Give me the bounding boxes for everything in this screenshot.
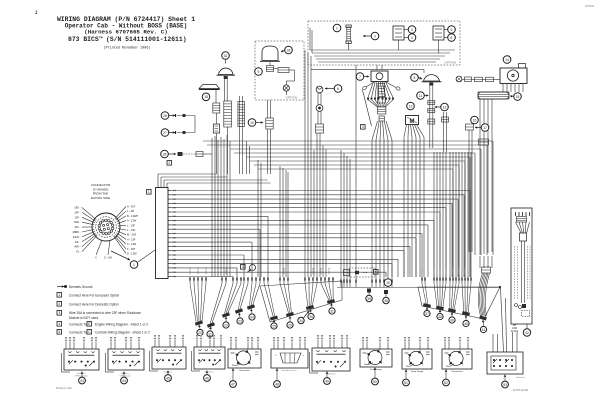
svg-text:A - 13W: A - 13W — [127, 219, 137, 223]
detail box: light switch — [62, 349, 100, 378]
svg-text:Fuel Gauge: Fuel Gauge — [370, 369, 382, 371]
connector plug (dome light) — [224, 101, 232, 127]
left harness panel — [260, 281, 342, 322]
sq 2 domestic — [167, 161, 172, 166]
svg-text:46BR -: 46BR - — [72, 230, 80, 234]
wire pair B — [246, 141, 249, 174]
svg-text:Viewed from rear: Viewed from rear — [281, 370, 297, 372]
svg-text:40R -: 40R - — [74, 245, 80, 249]
wire B1 mid — [318, 112, 321, 125]
beacon plug pair — [267, 66, 290, 73]
svg-text:4: 4 — [58, 322, 60, 326]
svg-text:50: 50 — [373, 380, 377, 384]
svg-text:8: 8 — [414, 76, 416, 80]
callout 28 (diode) — [161, 150, 176, 158]
svg-text:2: 2 — [58, 302, 60, 306]
wires to accessory box — [493, 288, 517, 352]
pin labels C1 — [173, 191, 177, 277]
pin ticks C1 — [168, 191, 171, 277]
callout 42 (cab plate) — [523, 324, 530, 336]
svg-text:35: 35 — [367, 297, 371, 301]
teardrop connector — [482, 267, 491, 273]
svg-text:40: 40 — [464, 322, 468, 326]
callout 11 (rear light wire) — [417, 92, 429, 100]
svg-text:5: 5 — [58, 330, 60, 334]
indicator bulb B1 — [316, 86, 323, 93]
callout 5b (relay K2 b) — [444, 34, 455, 42]
detail box: wiper switch — [106, 349, 145, 378]
svg-text:52: 52 — [444, 381, 448, 385]
svg-text:20: 20 — [198, 331, 202, 335]
sq symbol (flasher tap) — [361, 125, 366, 130]
svg-text:M: M — [410, 119, 415, 125]
svg-text:1: 1 — [58, 293, 60, 297]
plug B1 lower — [316, 124, 324, 133]
svg-text:4: 4 — [375, 270, 377, 274]
svg-text:3: 3 — [362, 125, 364, 129]
svg-text:L - 2B: L - 2B — [127, 209, 134, 213]
svg-text:Printed in USA: Printed in USA — [56, 387, 72, 390]
callout 13 (wiper motor) — [407, 102, 415, 110]
callout 26 (jumper a) — [161, 112, 175, 120]
wiper motor M1 — [406, 116, 419, 125]
svg-text:(Harness 6707665 Rev. C): (Harness 6707665 Rev. C) — [84, 29, 168, 36]
svg-text:Connects To: Connects To — [69, 331, 87, 335]
detail box: hourmeter — [228, 349, 261, 372]
callout 50 — [372, 368, 379, 385]
detail box: lever sensor — [271, 349, 308, 372]
detail box: accessory switch — [310, 348, 351, 376]
svg-text:29: 29 — [288, 323, 292, 327]
shutdown jumper (dashed) — [344, 268, 376, 277]
detail box: fuel gauge — [360, 349, 392, 371]
svg-text:Hourmeter: Hourmeter — [239, 369, 250, 372]
fan arrow callout — [298, 311, 309, 324]
svg-text:13L -: 13L - — [75, 240, 81, 244]
svg-text:11: 11 — [419, 94, 423, 98]
svg-text:30: 30 — [309, 315, 313, 319]
wire dome plug to mesh — [227, 127, 229, 174]
detail box: temp gauge — [402, 349, 432, 373]
svg-text:14F -: 14F - — [74, 210, 80, 214]
callout 27 (jumper b) — [161, 129, 175, 137]
svg-text:Connect Here For European Opti: Connect Here For European Option — [69, 294, 120, 298]
resistor/coil element — [213, 124, 219, 133]
diode D1 — [178, 152, 213, 157]
relay K2 — [433, 26, 444, 40]
legend item 3 — [57, 311, 141, 320]
callout 44 — [121, 372, 128, 384]
callout 6 (bulb B1) — [325, 85, 342, 93]
flasher socket fan — [367, 82, 394, 100]
svg-text:7: 7 — [359, 75, 361, 79]
svg-text:27: 27 — [163, 131, 167, 135]
callout 14 (key switch) — [503, 56, 511, 64]
svg-text:OPTION: OPTION — [444, 61, 456, 65]
wires into pin strip top — [158, 174, 271, 188]
connector plug (opt1) — [266, 118, 273, 129]
relay K1 — [393, 26, 404, 40]
svg-text:OPTION: OPTION — [285, 95, 297, 99]
vertical harness wires right — [434, 130, 472, 277]
callout 5 (relay K2 a) — [444, 26, 455, 34]
corner tick — [585, 5, 594, 7]
svg-text:16: 16 — [473, 118, 477, 122]
svg-text:31F -: 31F - — [74, 225, 80, 229]
callout 1 (fuse) — [333, 24, 341, 32]
plug D — [466, 124, 474, 130]
svg-text:17: 17 — [483, 126, 487, 130]
svg-text:25: 25 — [272, 324, 276, 328]
svg-text:3: 3 — [58, 311, 60, 315]
svg-text:51: 51 — [404, 381, 408, 385]
svg-text:873 BICS: 873 BICS — [68, 36, 99, 43]
connector note text — [91, 183, 111, 200]
svg-text:(S/N 514111001-12611): (S/N 514111001-12611) — [106, 36, 187, 43]
key switch lamp — [456, 76, 462, 82]
key switch S1 — [500, 64, 527, 84]
svg-text:PLATE: PLATE — [511, 330, 519, 333]
callout 53 — [502, 375, 509, 388]
detail box: tachometer — [442, 349, 472, 373]
detail box: attachment switch — [487, 352, 525, 379]
wire work light down — [215, 90, 217, 104]
svg-text:18: 18 — [204, 95, 208, 99]
dome light lamp — [217, 68, 236, 79]
svg-text:2: 2 — [374, 34, 376, 38]
callout 45 — [165, 371, 172, 382]
wire coil to mesh — [215, 113, 217, 174]
callout 2 with arrow — [363, 32, 379, 40]
svg-text:13: 13 — [409, 104, 413, 108]
jumper U wire — [177, 114, 195, 134]
ring terminal B1 — [316, 105, 323, 112]
svg-text:41: 41 — [482, 328, 486, 332]
callout 32 (dome light) — [222, 52, 230, 64]
leader line to strip — [138, 250, 155, 262]
svg-text:1: 1 — [336, 26, 338, 30]
svg-text:Controls Wiring Diagram - Shee: Controls Wiring Diagram - Sheet 1 or 2 — [95, 331, 150, 335]
svg-text:1: 1 — [148, 190, 150, 194]
wire band upper (8 runs with right corners) — [203, 141, 493, 277]
svg-text:2: 2 — [168, 161, 170, 165]
svg-text:B - 13WP: B - 13WP — [127, 214, 138, 218]
plug on feed bundle — [479, 139, 489, 145]
flasher lower plugs — [378, 107, 386, 121]
wire pair rear light — [428, 86, 435, 149]
svg-text:Module is NOT used.: Module is NOT used. — [69, 316, 99, 320]
rear work light — [422, 75, 442, 86]
svg-text:28: 28 — [163, 152, 167, 156]
wiper motor fan wires — [404, 125, 424, 278]
feed wire to lights — [311, 70, 424, 73]
legend item 5 — [57, 330, 150, 335]
wires from C1 into mesh — [171, 191, 470, 278]
svg-text:4: 4 — [411, 36, 413, 40]
terminal wire-number texture — [190, 268, 471, 274]
feed bundle taper — [480, 256, 492, 268]
legend item 2 — [57, 302, 119, 307]
svg-text:3: 3 — [411, 28, 413, 32]
svg-text:14: 14 — [505, 58, 509, 62]
svg-text:18S -: 18S - — [74, 206, 80, 210]
svg-text:44: 44 — [122, 379, 126, 383]
flasher bundle converge — [368, 100, 393, 107]
main feed bundle down — [480, 99, 492, 255]
svg-text:Denotes Ground: Denotes Ground — [69, 285, 93, 289]
svg-text:45: 45 — [166, 376, 170, 380]
callout 12 (rear light wire b) — [435, 103, 449, 111]
detail box: aux switch — [192, 347, 226, 374]
svg-text:32: 32 — [224, 54, 228, 58]
svg-text:9: 9 — [258, 70, 260, 74]
svg-text:13F -: 13F - — [74, 215, 80, 219]
mid plugs on harness line — [366, 289, 389, 304]
legend item 1 — [57, 293, 120, 298]
flasher unit — [371, 65, 388, 82]
callout 19 (shutdown) — [384, 279, 392, 287]
sq 4 connects-to — [374, 270, 379, 275]
svg-text:43: 43 — [80, 379, 84, 383]
rear light harness box — [511, 208, 532, 324]
svg-text:6: 6 — [337, 87, 339, 91]
teardrop plug end — [479, 315, 487, 332]
drawing number — [513, 389, 529, 392]
wire beacon down — [269, 62, 271, 66]
wire bulb B1 down — [318, 94, 321, 105]
svg-text:D - 13A: D - 13A — [104, 257, 112, 260]
svg-text:Temp Gauge: Temp Gauge — [411, 371, 424, 373]
svg-text:12: 12 — [443, 105, 447, 109]
sheet number — [35, 11, 38, 16]
callout 33 (beacon) — [281, 46, 292, 54]
detail box: heater switch — [150, 347, 187, 374]
flasher second fan to mesh — [355, 65, 393, 287]
wire joints upper-left — [0, 0, 1, 1]
svg-text:L - 13F: L - 13F — [127, 223, 136, 227]
svg-text:D - 13W: D - 13W — [127, 252, 137, 256]
svg-text:Connects To: Connects To — [69, 323, 87, 327]
plug row to key switch — [462, 77, 500, 82]
svg-text:A - INT: A - INT — [127, 205, 135, 209]
option box 2 (dashed) — [308, 21, 460, 65]
svg-text:TM: TM — [99, 36, 103, 39]
callout 15 (fusible link) — [510, 93, 521, 101]
callout 7 (flasher) — [356, 73, 369, 81]
flasher tie plug — [377, 84, 385, 104]
teardrop loop wires — [478, 273, 489, 316]
wire pair from dome light — [224, 79, 227, 101]
connector pointer arrow — [111, 251, 130, 260]
callout 17 — [475, 124, 489, 132]
right fan-out harness groups — [421, 277, 472, 326]
beacon light — [260, 46, 280, 61]
connector plug (work light) — [213, 103, 220, 113]
svg-text:46: 46 — [205, 376, 209, 380]
callout 18 (work light) — [202, 93, 210, 101]
svg-text:5: 5 — [451, 28, 453, 32]
svg-text:31: 31 — [330, 309, 334, 313]
RH cab plate label — [511, 324, 519, 333]
svg-text:M - 21R: M - 21R — [127, 233, 136, 237]
bus wires (option box 2) — [310, 28, 455, 62]
svg-text:37: 37 — [425, 312, 429, 316]
vertical harness wires — [212, 133, 351, 287]
legend: denotes ground — [57, 285, 93, 289]
svg-text:Engine Wiring Diagram - Sheet: Engine Wiring Diagram - Sheet 1 or 2 — [95, 323, 148, 327]
svg-text:42: 42 — [525, 331, 529, 335]
svg-text:F - 36T: F - 36T — [127, 247, 136, 251]
connector C1 pin strip — [147, 188, 169, 279]
callout 3 (relay K1 a) — [404, 26, 416, 34]
svg-text:THE -: THE - — [74, 220, 81, 224]
callout 9 (beacon plug) — [255, 68, 263, 76]
right harness panel — [418, 286, 501, 319]
svg-text:47: 47 — [231, 382, 235, 386]
callout 46 — [204, 371, 211, 382]
callout 1 (connector C1) — [130, 261, 138, 269]
svg-text:Connect Here For Domestic Opti: Connect Here For Domestic Option — [69, 303, 119, 307]
callout 43 — [79, 372, 86, 384]
key switch wires down — [503, 84, 523, 93]
svg-text:A - 13F: A - 13F — [127, 237, 136, 241]
svg-text:53: 53 — [503, 383, 507, 387]
svg-text:39: 39 — [450, 318, 454, 322]
svg-text:1: 1 — [133, 263, 135, 267]
wire pair opt1 down — [268, 100, 271, 118]
svg-text:48: 48 — [275, 382, 279, 386]
wire beacon circuit — [286, 70, 294, 85]
callout 16 — [471, 116, 479, 124]
ground symbol G1 — [241, 265, 256, 273]
wire label stubs above detail boxes — [65, 336, 469, 349]
callout 52 — [443, 370, 450, 386]
title block — [57, 16, 195, 51]
svg-text:36: 36 — [384, 299, 388, 303]
callout 48 — [274, 369, 281, 388]
option box 1 (dashed) — [255, 41, 304, 100]
svg-text:19: 19 — [386, 281, 390, 285]
svg-text:24: 24 — [250, 315, 254, 319]
svg-text:34: 34 — [299, 319, 303, 323]
svg-text:26: 26 — [163, 114, 167, 118]
wire opt1 to mesh — [268, 129, 271, 174]
fusible link — [478, 92, 509, 99]
svg-text:MATING SIDE: MATING SIDE — [91, 196, 110, 200]
svg-text:(Printed November 1996): (Printed November 1996) — [104, 46, 151, 51]
wires option box 2 to mesh — [305, 50, 311, 277]
svg-text:Viewed in: Viewed in — [327, 374, 336, 376]
wire pair C — [442, 112, 449, 152]
front work light — [199, 85, 220, 90]
long tap wire — [363, 90, 372, 126]
main harness line — [337, 287, 500, 289]
svg-text:W-975-40-404: W-975-40-404 — [513, 389, 529, 392]
callout 8 (rear light) — [411, 74, 422, 82]
svg-text:Viewed in: Viewed in — [516, 377, 525, 379]
svg-text:23: 23 — [238, 319, 242, 323]
svg-text:44LR -: 44LR - — [73, 235, 81, 239]
printed in USA — [56, 387, 72, 390]
flasher side taps — [362, 82, 401, 91]
svg-text:1 - 13F: 1 - 13F — [127, 228, 136, 232]
svg-text:22: 22 — [224, 323, 228, 327]
left fan-out harness groups — [189, 277, 335, 337]
svg-text:38: 38 — [438, 315, 442, 319]
legend item 4 — [57, 322, 148, 327]
circular connector body — [92, 213, 120, 241]
svg-text:6: 6 — [451, 36, 453, 40]
svg-text:Wire 26A is connected to wire: Wire 26A is connected to wire 23F when S… — [69, 311, 141, 315]
wire pair A — [240, 96, 243, 174]
svg-text:41 -: 41 - — [76, 250, 81, 254]
svg-text:33: 33 — [287, 48, 291, 52]
indicator bulb (option box 1) — [283, 85, 289, 95]
tall connector (pair A) — [238, 102, 245, 127]
connector spokes and pin labels — [72, 205, 138, 260]
fuse F1 — [346, 25, 351, 43]
svg-text:Tachometer: Tachometer — [451, 370, 463, 373]
callout 47 — [230, 369, 237, 388]
callout 49 — [324, 372, 331, 385]
svg-text:10: 10 — [250, 121, 254, 125]
svg-text:15: 15 — [516, 95, 520, 99]
svg-text:49: 49 — [325, 379, 329, 383]
callout 4 (relay K1 b) — [404, 34, 416, 42]
callout 51 — [403, 370, 410, 386]
callout 10 (opt1 plug) — [248, 119, 263, 127]
svg-text:A - 13W: A - 13W — [127, 242, 137, 246]
